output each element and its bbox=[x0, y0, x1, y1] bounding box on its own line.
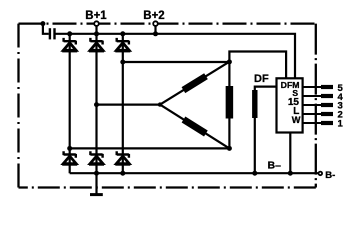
svg-text:B+1: B+1 bbox=[85, 10, 107, 22]
svg-text:DF: DF bbox=[254, 73, 269, 85]
svg-text:B+2: B+2 bbox=[143, 10, 164, 22]
svg-text:W: W bbox=[292, 115, 301, 125]
svg-text:B-: B- bbox=[325, 170, 335, 181]
svg-text:1: 1 bbox=[338, 118, 344, 129]
svg-text:B–: B– bbox=[268, 160, 282, 172]
